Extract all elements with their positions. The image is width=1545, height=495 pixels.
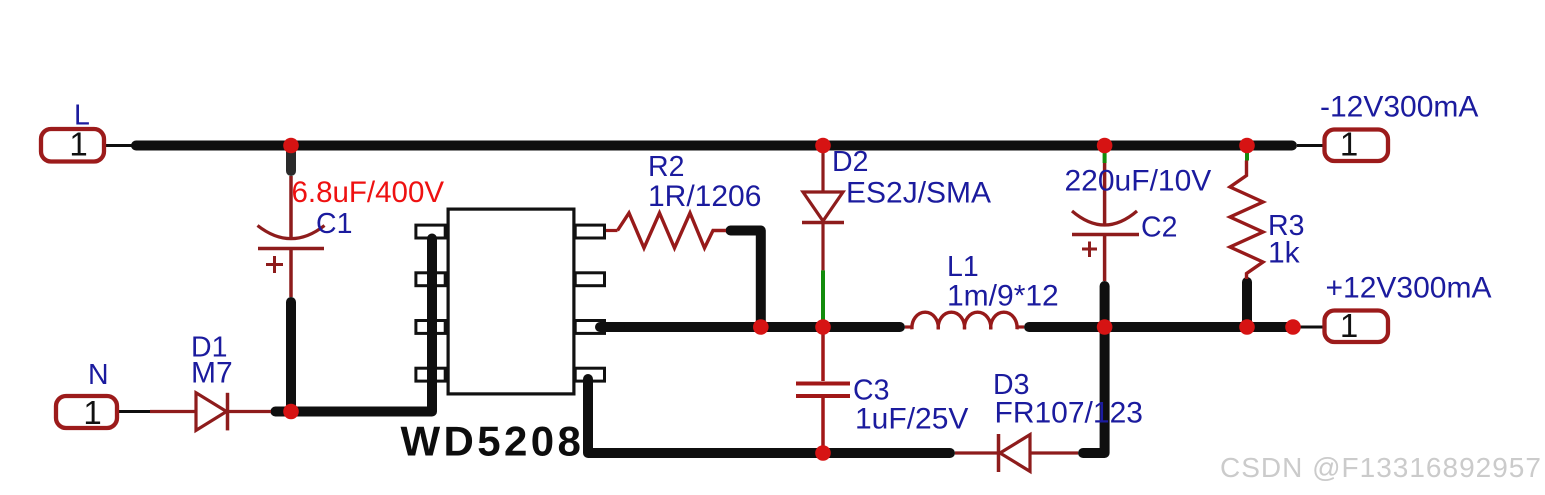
wire from IC pin1 left down to D1 junction [275,239,432,412]
capacitor C1 [258,176,325,297]
svg-text:1m/9*12: 1m/9*12 [947,280,1059,313]
IC pin 1 left [416,225,445,238]
wire green segment D2 to middle rail [821,270,825,320]
svg-text:M7: M7 [191,357,233,390]
wire middle rail right segment [1029,322,1293,332]
junction dot middle rail at C2 D3 [1097,319,1113,335]
wire green segment below C2 top junction [1103,151,1107,163]
wire C2 bottom stub down through middle rail to D3 [1083,286,1105,453]
wire R3 bottom stub [1242,282,1252,327]
wire R2 output corner down to middle rail [731,231,761,328]
wire top rail L net [136,141,1292,151]
svg-text:1: 1 [1340,126,1358,163]
junction dot N net at D1 C1 [283,404,299,420]
wire -12V connector stub [1297,144,1323,147]
svg-text:1uF/25V: 1uF/25V [855,403,968,436]
wire middle rail left segment [600,322,900,332]
wire N connector stub [118,410,150,413]
svg-text:1: 1 [83,394,101,431]
connector port -12V output [1325,126,1389,163]
IC pin 5 right [575,368,604,381]
wire L connector stub [104,144,133,147]
resistor R2 [606,213,726,248]
svg-text:+12V300mA: +12V300mA [1326,272,1492,305]
svg-text:1k: 1k [1268,237,1301,270]
junction dot top rail at R3 [1239,138,1255,154]
connector port N [56,394,117,431]
svg-text:1: 1 [1340,307,1358,344]
connector port +12V output [1325,307,1389,344]
svg-text:ES2J/SMA: ES2J/SMA [846,177,991,210]
capacitor C3 [796,327,850,453]
IC pin 2 left [416,273,445,286]
junction dot middle rail at R3 [1239,319,1255,335]
svg-text:R2: R2 [648,151,684,183]
svg-text:WD5208: WD5208 [401,418,585,465]
svg-text:D2: D2 [832,146,868,178]
wire C1 bottom to node N junction [286,302,296,412]
IC pin 8 right [575,225,604,238]
diode D1 [150,393,271,431]
wire green segment below R3 top junction [1245,152,1249,161]
wire overlay middle rail start on pin 6 [600,322,620,332]
resistor R3 [1230,161,1263,280]
wire C1 top stub [286,152,296,171]
svg-text:FR107/123: FR107/123 [995,397,1143,430]
wire overlay on left pins [427,239,437,406]
IC pin 6 right [575,321,604,334]
junction dot middle rail end [1285,319,1301,335]
IC pin 3 left [416,321,445,334]
junction dot middle rail at D2 C3 [815,319,831,335]
diode D2 [802,150,844,270]
junction dot top rail at D2 [815,138,831,154]
junction dot bottom rail at C3 [815,445,831,461]
wire +12V connector stub [1293,326,1323,329]
svg-text:N: N [88,359,109,391]
svg-text:-12V300mA: -12V300mA [1320,91,1478,124]
svg-text:220uF/10V: 220uF/10V [1065,165,1212,198]
svg-text:L1: L1 [947,251,979,283]
junction dot top rail at C2 [1097,138,1113,154]
connector port L [41,126,104,163]
svg-text:C2: C2 [1141,212,1177,244]
capacitor C2 [1072,163,1139,281]
svg-text:L: L [74,100,90,132]
svg-text:6.8uF/400V: 6.8uF/400V [292,176,445,209]
IC U1 WD5208 body [448,209,574,394]
wire IC pin4 down and right along bottom rail [588,379,950,453]
junction dot middle rail at R2 [753,319,769,335]
svg-text:CSDN @F13316892957: CSDN @F13316892957 [1220,452,1542,483]
IC pin 7 right [575,273,604,286]
IC pin 4 left [416,368,445,381]
wire overlay pin 5 start [583,379,593,400]
svg-text:1R/1206: 1R/1206 [648,180,761,213]
diode D3 [955,434,1078,472]
inductor L1 [905,312,1024,329]
junction dot top rail at C1 [283,138,299,154]
svg-text:C1: C1 [316,208,352,240]
